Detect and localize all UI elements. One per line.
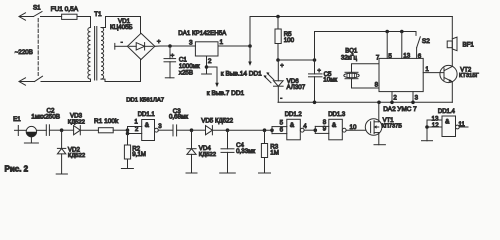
diode VD4 (to ground) [187,130,196,173]
top +5V rail [250,17,452,47]
svg-text:9,1М: 9,1М [132,151,146,158]
svg-text:&: & [332,122,337,129]
transformer T1 core [95,27,97,81]
svg-text:FU1 0,5A: FU1 0,5A [51,6,79,13]
DD1.1 input fork [128,127,142,134]
node VT1 drain rail [377,101,381,105]
resistor R5 [275,17,281,61]
resistor R1 [98,128,127,133]
node pin13 rail [400,30,404,34]
node VD4 [190,128,194,132]
bridge rectifier VD1 (diamond) [127,33,154,59]
svg-text:5: 5 [388,53,392,60]
svg-text:КД522: КД522 [68,119,85,125]
svg-text:S1: S1 [33,4,41,11]
wire secondary top to bridge [106,17,141,34]
node R3 [263,128,267,132]
transformer T1 primary winding [88,17,91,82]
svg-text:2: 2 [135,126,139,133]
svg-text:3: 3 [189,40,193,47]
svg-text:КД522: КД522 [199,152,216,158]
regulator DA1 box [195,42,218,56]
ground under VT1 [374,144,385,146]
DA1 pin 2 lead [206,56,208,74]
gate DD1.2 [287,119,316,140]
svg-text:Е1: Е1 [13,116,21,123]
svg-text:3: 3 [158,123,162,130]
DA2 pin 1 wire to VT2 base [423,72,444,74]
svg-text:-: - [121,39,123,46]
ground under VD2 [56,173,67,175]
svg-text:х25В: х25В [179,70,193,77]
capacitor C1 (electrolytic) [164,46,176,78]
arrow to pin 7 DD1 [207,67,219,87]
LED VD6 [264,60,284,102]
svg-text:+: + [317,68,321,74]
svg-text:КД522: КД522 [68,153,85,159]
node R5 top [276,15,280,19]
svg-text:1: 1 [134,119,138,126]
node C1 top [168,44,172,48]
switch S2 [417,37,421,59]
crystal BQ1 [344,64,379,88]
svg-text:~220В: ~220В [15,49,33,56]
wire to R3 [228,129,273,131]
resistor R2 [124,134,130,169]
melody IC DA2 box [379,58,423,91]
svg-text:&: & [445,119,450,126]
wire DA1 out to node [218,45,250,47]
ground under R3 [259,172,271,174]
switch S1 pole 1 (mains top, with left arrow) [19,12,62,21]
svg-text:АЛ307: АЛ307 [287,84,306,91]
svg-text:к Выв.14 DD1: к Выв.14 DD1 [221,70,262,77]
transistor VT2 [440,65,457,102]
wire secondary bottom to bridge [105,60,141,82]
svg-text:КП737Б: КП737Б [382,123,403,129]
switch S1 linkage (dashed) [37,19,39,76]
svg-text:5: 5 [280,119,284,126]
svg-text:2: 2 [208,58,212,65]
ground under DA1 pin 2 [202,73,212,75]
DD1.4 input fork [427,120,442,141]
gate DD1.1 [142,120,173,141]
capacitor C5 [309,60,323,102]
svg-text:11: 11 [458,121,465,128]
capacitor C3 [173,125,192,136]
svg-text:КТ315Г: КТ315Г [459,73,480,79]
gate DD1.4 [442,116,468,137]
wire rail to VT2 collector [451,17,453,67]
svg-text:&: & [290,122,295,129]
svg-text:DD1.4: DD1.4 [438,109,456,115]
svg-text:0,68мк: 0,68мк [169,113,188,120]
node VD6 top [276,58,280,62]
svg-text:3: 3 [415,94,419,101]
speaker BF1 [447,37,457,51]
node +5V [248,44,252,48]
DA2 pin 2 lead [391,92,393,103]
svg-text:7: 7 [376,54,380,61]
svg-text:2: 2 [393,94,397,101]
ground under DD1.4 inputs [422,140,433,142]
svg-text:0,33мк: 0,33мк [236,148,255,155]
svg-text:4: 4 [303,123,307,130]
node DA1 pin 2 [205,65,209,69]
node R2 top [126,132,130,136]
svg-text:1мкх250В: 1мкх250В [31,113,60,120]
svg-text:DD1 К561ЛА7: DD1 К561ЛА7 [126,97,164,103]
svg-text:DD1.3: DD1.3 [328,112,346,118]
node DD1.3 inputs [314,128,318,132]
svg-text:100: 100 [284,37,295,44]
ground under C1 [165,77,174,79]
svg-text:+: + [171,53,175,60]
svg-text:DD1.1: DD1.1 [138,112,156,118]
svg-text:S2: S2 [422,38,430,45]
diode VD5 [192,126,228,135]
svg-text:T1: T1 [94,11,102,18]
DA2 pin 5 lead [386,32,388,59]
svg-text:к Выв.7 DD1: к Выв.7 DD1 [207,90,245,97]
common rail (switched) [278,101,452,103]
DA2 supply rail [315,32,417,61]
svg-text:1: 1 [425,66,429,73]
svg-text:КЦ405Б: КЦ405Б [110,24,133,31]
svg-text:10: 10 [350,124,357,131]
svg-text:R1 100k: R1 100k [94,118,119,125]
bridge VD1 minus stub [115,39,128,49]
svg-text:BQ1: BQ1 [345,49,358,55]
node DD1.2 inputs [270,128,274,132]
ground under R2 [121,168,133,170]
svg-text:12: 12 [432,122,439,129]
svg-text:&: & [145,122,150,129]
svg-text:DD1.2: DD1.2 [285,112,303,118]
sensor E1 [15,126,47,144]
node DA2 pin3 rail [411,101,415,105]
resistor R3 [261,130,267,173]
svg-text:DA2 УМС 7: DA2 УМС 7 [383,106,417,113]
svg-text:1: 1 [220,39,224,46]
node VD2 [60,128,64,132]
svg-text:+: + [157,39,161,46]
node C5 top [313,58,317,62]
node DD1.4 inputs [425,125,429,129]
transformer T1 secondary winding [101,17,106,82]
DD1.2 input fork [272,127,287,134]
svg-text:8: 8 [375,81,379,88]
DA2 pin 3 lead [412,92,414,103]
node C5 bottom rail [313,101,317,105]
switch S1 pole 2 (mains bottom, with left arrow) [19,76,91,85]
node DD1.1 inputs [126,128,130,132]
ground under VD4 [186,172,197,174]
svg-text:-: - [280,96,282,102]
fuse FU1 [62,14,91,19]
transistor VT1 (MOSFET) [365,102,382,144]
svg-text:+: + [280,64,284,70]
svg-text:DA1 КР142ЕН5А: DA1 КР142ЕН5А [178,30,227,37]
svg-text:BF1: BF1 [463,42,475,49]
diode VD2 (to ground) [57,130,65,174]
svg-text:6: 6 [280,126,284,133]
node pin5 rail [385,30,389,34]
svg-text:1М: 1М [270,149,279,156]
svg-text:10мк: 10мк [323,77,337,84]
ground under C4 [220,172,236,174]
svg-text:32кГц: 32кГц [341,56,358,62]
arrow to pin 14 DD1 [248,46,252,66]
DA2 pin 13 lead [401,32,403,59]
mid rail to C5 [278,59,315,61]
diode VD3 [62,126,99,135]
capacitor C4 [221,130,234,173]
node DA2 pin2 rail [390,101,394,105]
gate DD1.3 [329,119,366,140]
wire bridge to DA1 [155,45,196,47]
svg-text:Рис. 2: Рис. 2 [5,165,29,174]
DD1.3 input fork [315,126,329,133]
svg-text:6: 6 [418,53,422,60]
svg-text:VD5 КД522: VD5 КД522 [201,118,233,125]
svg-text:9: 9 [323,125,327,132]
node C4 [226,128,230,132]
capacitor C2 [46,125,61,136]
